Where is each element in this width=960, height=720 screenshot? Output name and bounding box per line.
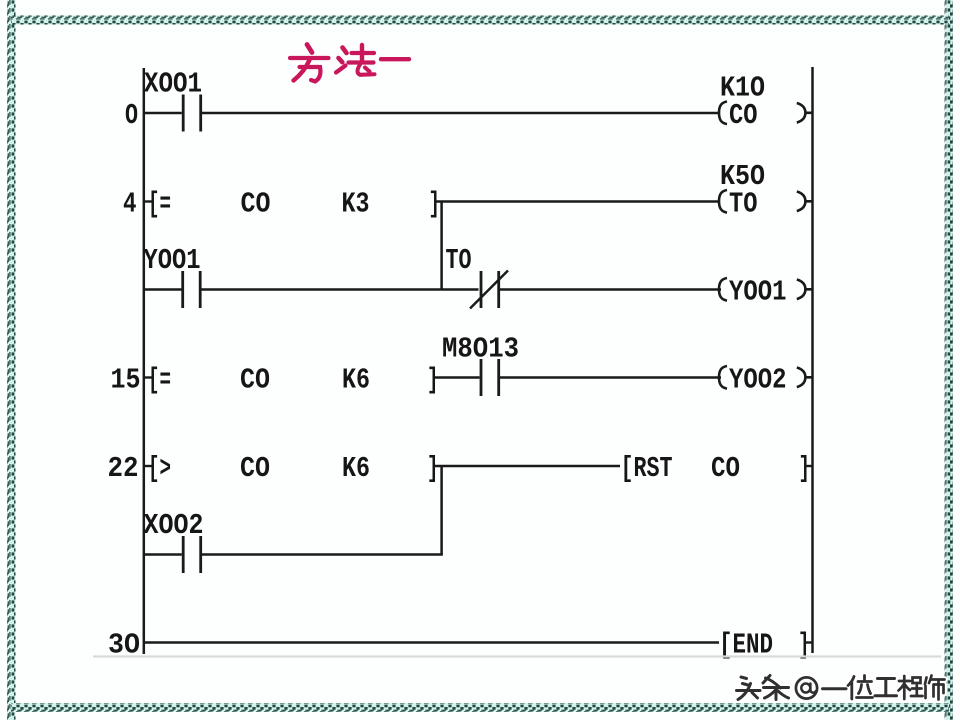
watermark 头条 @一位工程师 halo <box>737 676 945 700</box>
wire rung4 to coil <box>435 200 720 202</box>
wire rung0 to coil <box>202 112 720 114</box>
svg-text:CO: CO <box>241 188 271 221</box>
contact X002 <box>144 509 204 573</box>
svg-text:22: 22 <box>108 452 139 485</box>
svg-text:]: ] <box>427 452 439 485</box>
rung 0 step number <box>125 99 138 132</box>
rung 4 step number <box>123 188 137 221</box>
wire rung0 left <box>143 112 182 114</box>
svg-text:XOO1: XOO1 <box>144 68 202 101</box>
title 方法一 <box>290 45 409 82</box>
svg-text:CO: CO <box>240 364 270 397</box>
right power rail <box>811 67 814 653</box>
left power rail <box>143 68 146 654</box>
svg-text:]: ] <box>429 188 441 221</box>
compare block [= C0 K3 ] <box>143 188 440 221</box>
border frame bottom strip <box>11 703 949 712</box>
svg-text:K6: K6 <box>342 364 370 397</box>
wire X002 row to branch <box>202 553 443 555</box>
coil Y001 <box>719 276 813 309</box>
contact M8013 <box>442 333 519 397</box>
coil Y002 <box>719 364 813 397</box>
svg-text:CO: CO <box>729 99 758 132</box>
svg-text:4: 4 <box>123 188 137 221</box>
wire rung15 left of contact <box>435 376 480 378</box>
svg-text:K3: K3 <box>342 188 370 221</box>
compare block [> C0 K6 ] <box>143 452 439 485</box>
svg-text:]: ] <box>799 452 811 485</box>
svg-text:[=: [= <box>148 188 171 221</box>
contact Y001 <box>144 244 201 308</box>
coil T0 with K50 <box>719 160 813 221</box>
svg-text:]: ] <box>427 364 439 397</box>
svg-text:CO: CO <box>240 452 270 485</box>
rung 22 step number <box>108 452 139 485</box>
wire rung22 to RST <box>435 465 621 467</box>
contact T0 normally closed <box>446 244 509 309</box>
svg-text:YOO1: YOO1 <box>144 244 201 277</box>
svg-text:TO: TO <box>446 244 472 277</box>
border frame left strip <box>7 0 16 720</box>
coil C0 with K10 <box>719 72 813 133</box>
wire rung15 to coil <box>500 376 721 378</box>
contact X001 <box>144 68 202 132</box>
svg-text:K6: K6 <box>342 452 370 485</box>
wire Y001 row to coil <box>500 288 721 290</box>
svg-text:15: 15 <box>111 364 141 397</box>
wire branch from rung22 down <box>440 466 443 555</box>
svg-text:[RST: [RST <box>621 452 673 485</box>
rung 15 step number <box>111 364 141 397</box>
instruction RST C0 <box>621 452 813 485</box>
rung 30 step number <box>108 629 140 662</box>
border frame right strip <box>945 0 954 720</box>
wire rung30 <box>143 641 719 643</box>
svg-text:YOO1: YOO1 <box>729 276 787 309</box>
wire Y001 row left <box>143 288 182 290</box>
wire Y001 row middle <box>202 288 479 290</box>
svg-text:O: O <box>125 99 138 132</box>
svg-text:[>: [> <box>148 452 171 485</box>
wire X002 row left <box>143 553 182 555</box>
svg-text:TO: TO <box>729 188 758 221</box>
svg-text:CO: CO <box>711 452 740 485</box>
watermark 头条 @一位工程师 <box>737 676 945 700</box>
separator gray line <box>93 655 941 657</box>
svg-text:YOO2: YOO2 <box>729 364 787 397</box>
svg-text:[=: [= <box>148 364 171 397</box>
svg-text:XOO2: XOO2 <box>144 509 204 542</box>
compare block [= C0 K6 ] <box>143 364 439 397</box>
border frame top strip <box>11 16 949 25</box>
wire branch from rung4 down <box>440 202 443 290</box>
instruction END <box>719 629 813 662</box>
